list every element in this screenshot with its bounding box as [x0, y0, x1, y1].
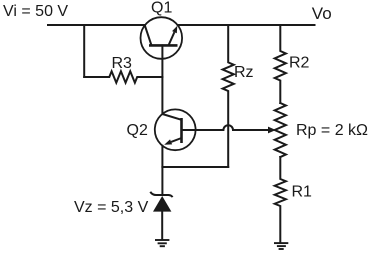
wire left vertical from input to R3	[83, 25, 85, 77]
transistor Q1	[141, 17, 183, 59]
svg-text:Rz: Rz	[234, 64, 254, 81]
wire output rail to Vo	[178, 24, 315, 26]
resistor R3	[84, 71, 162, 82]
zener diode Vz	[150, 192, 172, 212]
svg-text:Vi = 50 V: Vi = 50 V	[3, 3, 68, 20]
resistor R1	[275, 157, 286, 243]
svg-text:R1: R1	[292, 183, 313, 200]
potentiometer Rp body	[275, 103, 286, 157]
node Vi input rail (wire)	[48, 24, 145, 26]
svg-text:R2: R2	[289, 54, 310, 71]
wire zener to ground	[161, 212, 163, 240]
ground (left, under zener)	[155, 240, 169, 246]
resistor Rz	[223, 25, 234, 167]
svg-text:Rp = 2 kΩ: Rp = 2 kΩ	[296, 122, 368, 139]
svg-text:Vo: Vo	[312, 4, 332, 23]
svg-text:Vz = 5,3 V: Vz = 5,3 V	[74, 199, 149, 216]
svg-text:Q1: Q1	[151, 0, 172, 16]
wire Q2 emitter down to zener	[161, 146, 163, 195]
potentiometer Rp wiper arrow	[268, 127, 276, 134]
wire Q2 base to wiper with hop over Rz	[182, 125, 269, 130]
wire emitter node to Rz bottom	[162, 166, 228, 168]
svg-text:Q2: Q2	[127, 122, 148, 139]
wire Q1 base down to Q2 collector	[161, 45, 163, 113]
transistor Q2	[155, 109, 196, 150]
svg-text:R3: R3	[112, 55, 133, 72]
resistor R2	[275, 25, 286, 103]
ground (right, under R1)	[274, 243, 288, 249]
